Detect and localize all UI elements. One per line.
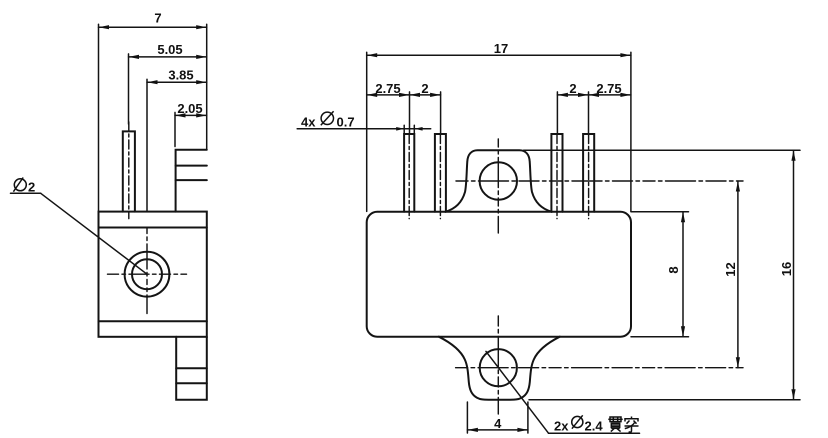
svg-text:2: 2 — [28, 180, 35, 195]
svg-text:12: 12 — [723, 262, 738, 276]
dimension 17 — [367, 52, 631, 211]
dimensions 2.75 / 2 (left pins) — [367, 92, 441, 134]
bottom tab hole — [480, 349, 517, 386]
pin 4 — [583, 134, 594, 212]
dimension 8 — [631, 212, 689, 337]
leader 2x diameter 2.4 through — [486, 351, 640, 433]
svg-text:3.85: 3.85 — [168, 68, 193, 83]
top hole horizontal centerline (extension for dim 12) — [456, 180, 743, 182]
dimension 5.05 — [129, 54, 207, 124]
chinese character chuan (drawn) — [625, 417, 639, 433]
svg-text:8: 8 — [666, 266, 681, 273]
svg-text:2.05: 2.05 — [177, 101, 202, 116]
side view top tab — [176, 150, 207, 212]
dimension 2.05 — [175, 112, 207, 146]
pin 2 — [435, 134, 446, 212]
bottom mounting tab outline — [439, 337, 560, 400]
side view pin — [123, 131, 135, 211]
pin 1 — [404, 134, 414, 212]
dimension 3.85 — [147, 79, 207, 211]
side view hole outer circle — [125, 252, 170, 297]
side view hole inner circle — [132, 259, 162, 289]
svg-text:4x: 4x — [301, 114, 316, 129]
svg-text:4: 4 — [494, 416, 502, 431]
dimension 16 — [524, 150, 801, 400]
dimensions 2 / 2.75 (right pins) — [557, 92, 631, 134]
svg-text:17: 17 — [494, 41, 508, 56]
dimension 7 — [99, 24, 207, 211]
label diameter 2 symbol — [13, 178, 26, 192]
leader diameter 2 — [11, 193, 148, 274]
svg-text:7: 7 — [154, 11, 161, 26]
svg-text:2: 2 — [569, 81, 576, 96]
side view pin centerline — [128, 122, 130, 219]
dimension 4 — [467, 402, 528, 433]
dimension 12 — [737, 181, 739, 368]
pin centerlines — [409, 135, 588, 219]
svg-text:5.05: 5.05 — [157, 42, 182, 57]
svg-text:2.4: 2.4 — [585, 418, 604, 433]
bottom tab vertical centerline — [497, 316, 499, 414]
svg-text:2.75: 2.75 — [375, 81, 400, 96]
front view body outline — [367, 212, 631, 337]
svg-text:2: 2 — [421, 81, 428, 96]
top tab vertical centerline — [497, 139, 499, 233]
chinese character guan (drawn) — [608, 417, 622, 432]
svg-text:2x: 2x — [554, 418, 569, 433]
svg-text:16: 16 — [779, 262, 794, 276]
top mounting tab outline — [445, 150, 551, 212]
bottom hole horizontal centerline (extension for dim 12) — [456, 367, 743, 369]
svg-text:2.75: 2.75 — [596, 81, 621, 96]
leader 4x diameter 0.7 with edge ticks — [297, 125, 431, 134]
svg-text:0.7: 0.7 — [337, 114, 355, 129]
side view hole crosshair centerlines — [108, 229, 187, 314]
side view bottom tab — [176, 337, 207, 400]
top tab hole — [480, 162, 517, 199]
side view body outline — [99, 212, 207, 337]
pin 3 — [551, 134, 562, 212]
